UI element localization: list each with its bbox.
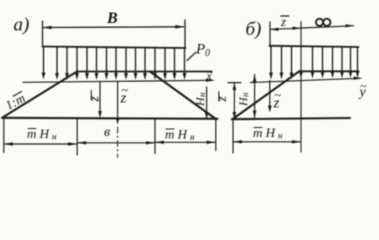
svg-text:~: ~	[207, 67, 213, 79]
label H_n rotated b	[236, 92, 250, 107]
y axis arrowhead	[354, 77, 363, 80]
label x tilde	[206, 67, 214, 83]
svg-text:z: z	[214, 96, 229, 103]
svg-text:P: P	[195, 42, 205, 58]
b dimension z bar segment	[270, 28, 301, 29]
right slope a	[150, 72, 216, 120]
label P0 with leader	[187, 52, 196, 60]
bottom tick 2 a	[76, 119, 78, 155]
bottom tick 1 a	[3, 119, 5, 153]
svg-text:0: 0	[205, 48, 210, 59]
svg-text:н: н	[278, 131, 283, 141]
b ground line	[232, 118, 350, 119]
dimension B arrowheads	[43, 25, 185, 29]
label z tilde a	[120, 82, 129, 107]
dimension mHn right a	[155, 141, 216, 143]
svg-text:~: ~	[274, 87, 281, 102]
b z tilde arrow	[269, 81, 271, 108]
b load arrowheads	[269, 71, 359, 80]
z tilde arrow a / centreline	[117, 82, 119, 119]
label infinity	[316, 19, 331, 26]
b dim ticks	[269, 22, 271, 47]
distributed load arrowheads a	[42, 73, 187, 81]
label y tilde	[358, 79, 368, 100]
label mHn right	[165, 127, 195, 143]
b corner guideline	[300, 22, 302, 153]
b bottom tick left	[232, 119, 234, 153]
label mHn b	[253, 125, 283, 141]
svg-text:н: н	[190, 132, 195, 142]
dimension B line	[43, 20, 186, 47]
label z bar rotated	[87, 96, 102, 103]
b crest line	[299, 70, 359, 72]
x axis line	[23, 80, 212, 82]
label 1:m	[3, 90, 28, 113]
svg-text:~: ~	[360, 79, 367, 93]
z bar arrow a	[99, 82, 101, 113]
label z bar rotated right	[214, 96, 229, 103]
b dimension mHn	[233, 141, 301, 143]
z bar dimension right	[228, 82, 241, 84]
load top line a	[43, 47, 186, 49]
x axis arrowhead	[206, 79, 215, 82]
bottom tick 3 a	[154, 119, 156, 154]
ground line a	[2, 118, 218, 119]
H_n dimension a	[206, 87, 208, 119]
svg-text:н: н	[240, 92, 250, 97]
bottom tick 4 a	[215, 120, 217, 151]
b load top line	[270, 46, 359, 47]
distributed load arrows a	[44, 47, 185, 74]
svg-text:б): б)	[246, 19, 262, 40]
b distributed load arrows	[271, 47, 358, 74]
crest line a	[77, 71, 212, 73]
label z tilde b	[273, 87, 282, 112]
svg-text:В: В	[106, 10, 118, 27]
b dimension infinity segment	[301, 26, 354, 28]
b H_n dimension	[254, 75, 256, 118]
dimension v middle a	[77, 142, 155, 144]
b slope	[233, 71, 299, 119]
svg-text:а): а)	[14, 15, 30, 36]
left slope a	[3, 72, 78, 118]
label mHn left	[27, 126, 57, 142]
svg-text:z: z	[87, 96, 102, 103]
svg-text:н: н	[197, 92, 207, 97]
svg-text:~: ~	[121, 82, 128, 97]
label H_n rotated a	[193, 92, 207, 107]
y axis line	[251, 78, 361, 82]
svg-text:н: н	[52, 132, 57, 142]
svg-text:в: в	[104, 125, 110, 140]
dimension mHn left a	[4, 143, 77, 145]
